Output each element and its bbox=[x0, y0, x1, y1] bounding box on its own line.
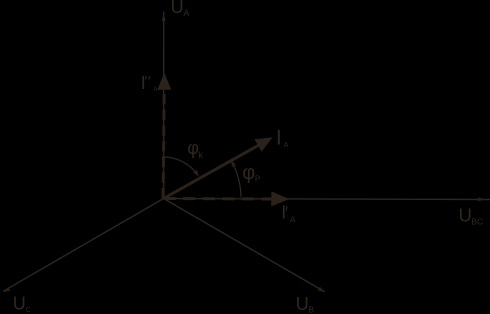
svg-text:I: I bbox=[276, 127, 282, 150]
label phi_k bbox=[187, 138, 203, 160]
label phi_P bbox=[242, 162, 260, 184]
svg-text:A: A bbox=[290, 215, 296, 225]
svg-text:A: A bbox=[284, 142, 289, 149]
label U_B bbox=[296, 294, 315, 314]
arrowhead of axis U_BC bbox=[478, 197, 485, 201]
label U_BC bbox=[459, 204, 484, 226]
svg-text:U: U bbox=[296, 294, 309, 314]
svg-text:k: k bbox=[198, 150, 203, 160]
svg-text:I: I bbox=[281, 203, 286, 223]
label U_A bbox=[171, 0, 190, 18]
angle arc phi_P bbox=[232, 162, 241, 198]
svg-text:C: C bbox=[26, 307, 31, 314]
svg-text:φ: φ bbox=[242, 162, 255, 184]
vector I_A shaft bbox=[164, 144, 262, 199]
arrowhead of axis U_A bbox=[162, 13, 166, 21]
label I_A bbox=[276, 127, 289, 150]
svg-text:I: I bbox=[141, 73, 146, 93]
wire axis U_A vertical line bbox=[163, 12, 165, 199]
svg-text:φ: φ bbox=[187, 138, 199, 158]
vector U_B line bbox=[164, 199, 325, 292]
arrowhead of I''_A bbox=[157, 73, 171, 90]
vector I'_A dashed shaft bbox=[164, 197, 273, 201]
svg-text:U: U bbox=[171, 0, 184, 17]
arrowhead of I'_A bbox=[271, 191, 289, 206]
svg-text:A: A bbox=[153, 87, 157, 93]
arrowhead of U_B bbox=[318, 287, 325, 292]
arrowhead of U_C bbox=[3, 287, 10, 292]
wire axis U_BC horizontal line bbox=[164, 199, 490, 200]
svg-text:BC: BC bbox=[471, 217, 483, 227]
label I'_A bbox=[281, 203, 296, 225]
arrowhead of arc phi_k bbox=[193, 170, 199, 177]
label U_C bbox=[13, 293, 31, 314]
vector U_C line bbox=[3, 199, 163, 292]
vector I''_A dashed shaft bbox=[163, 91, 164, 199]
svg-text:U: U bbox=[13, 293, 26, 313]
label I''_A bbox=[141, 73, 158, 93]
arrowhead of I_A bbox=[255, 137, 273, 152]
svg-text:P: P bbox=[255, 175, 260, 184]
svg-text:U: U bbox=[459, 204, 472, 225]
angle arc phi_k bbox=[162, 157, 198, 175]
arrowhead of arc phi_P bbox=[231, 160, 236, 167]
svg-text:B: B bbox=[308, 305, 314, 314]
svg-text:A: A bbox=[183, 8, 189, 18]
